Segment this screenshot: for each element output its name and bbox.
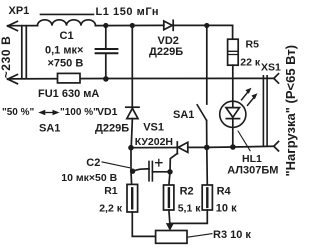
svg-text:VD1: VD1	[97, 106, 118, 118]
svg-text:FU1 630 мА: FU1 630 мА	[38, 88, 99, 100]
svg-text:R5: R5	[246, 38, 260, 50]
svg-text:КУ202Н: КУ202Н	[135, 136, 173, 148]
svg-text:10 к: 10 к	[216, 202, 237, 214]
svg-text:SA1: SA1	[39, 123, 60, 135]
svg-text:10 мк×50 В: 10 мк×50 В	[61, 172, 117, 184]
svg-text:~230 В: ~230 В	[0, 36, 13, 79]
svg-text:XS1: XS1	[261, 62, 281, 74]
svg-text:HL1: HL1	[242, 153, 262, 165]
svg-text:Д229Б: Д229Б	[95, 123, 129, 135]
svg-text:×750 В: ×750 В	[48, 58, 84, 70]
svg-text:5,1 к: 5,1 к	[178, 202, 202, 214]
svg-text:2,2 к: 2,2 к	[99, 202, 123, 214]
svg-text:АЛ307БМ: АЛ307БМ	[227, 165, 278, 177]
svg-text:"50 %": "50 %"	[2, 107, 35, 118]
svg-text:0,1 мк×: 0,1 мк×	[45, 45, 83, 57]
svg-text:"100 %": "100 %"	[60, 107, 98, 118]
svg-text:R3 10 к: R3 10 к	[213, 229, 251, 241]
svg-text:ХР1: ХР1	[9, 5, 30, 17]
svg-text:R1: R1	[104, 185, 118, 197]
svg-text:R2: R2	[180, 186, 194, 198]
svg-text:VS1: VS1	[143, 122, 164, 134]
svg-text:Д229Б: Д229Б	[149, 46, 183, 58]
svg-text:С1: С1	[60, 30, 74, 42]
svg-text:R4: R4	[217, 186, 232, 198]
svg-text:С2: С2	[86, 157, 100, 169]
svg-text:"Нагрузка" (Р<65 Вт): "Нагрузка" (Р<65 Вт)	[283, 45, 298, 177]
svg-text:L1 150 мГн: L1 150 мГн	[96, 6, 160, 18]
svg-text:22 к: 22 к	[240, 57, 261, 69]
svg-text:SA1: SA1	[173, 109, 194, 121]
